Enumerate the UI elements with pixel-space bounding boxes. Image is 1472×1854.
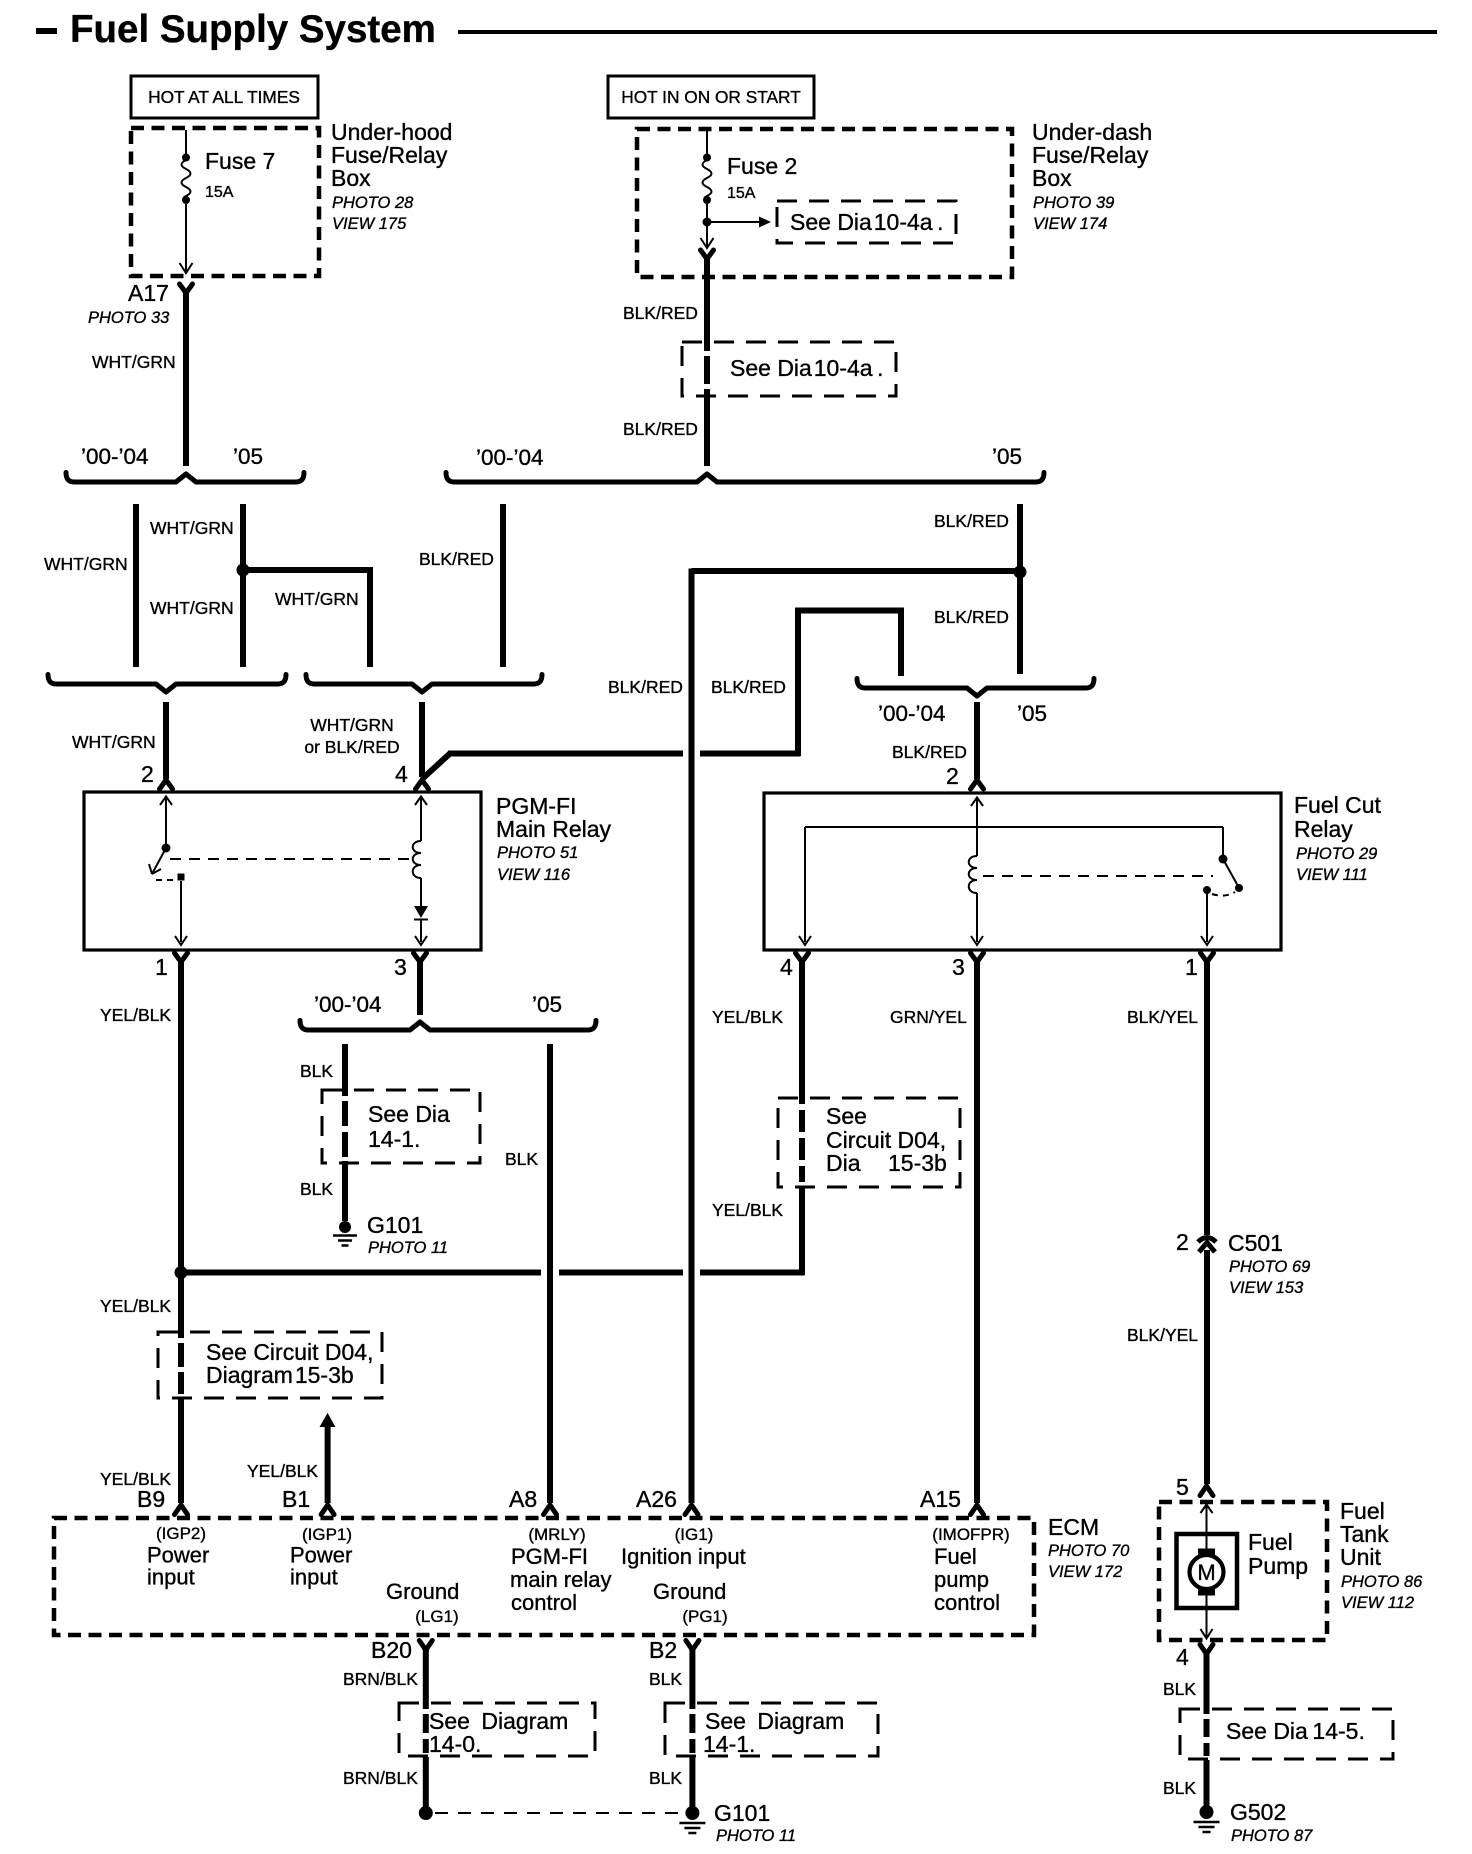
fuel pump label — [1248, 1529, 1308, 1579]
svg-text:BLK: BLK — [505, 1149, 538, 1169]
svg-text:’00-’04: ’00-’04 — [878, 701, 946, 726]
svg-text:(IGP1): (IGP1) — [302, 1525, 352, 1544]
ground G101 label — [714, 1800, 796, 1845]
svg-text:BLK/YEL: BLK/YEL — [1127, 1007, 1198, 1027]
ECM pin name (MRLY) PGM-FI main relay control — [510, 1525, 611, 1615]
wire WHT/GRN '00-'04 branch — [133, 504, 139, 667]
wire BLK/YEL from K2 pin 1 — [1204, 960, 1210, 1235]
svg-text:’00-’04: ’00-’04 — [314, 992, 382, 1017]
svg-text:B20: B20 — [371, 1637, 412, 1663]
pin 2 fork — [160, 780, 173, 789]
svg-text:BLK: BLK — [649, 1669, 682, 1689]
wire BLK '05 to ECM A8 — [547, 1044, 553, 1503]
year split bracket (K1 pin 3) — [300, 1021, 596, 1031]
svg-text:(LG1): (LG1) — [415, 1607, 458, 1626]
pin 4 fork — [416, 780, 429, 789]
K1 pin 4 internal arrow — [415, 797, 427, 806]
svg-text:G101: G101 — [367, 1212, 423, 1238]
K1 pin 1 fork — [175, 953, 188, 962]
wire dashes through reference box — [689, 1714, 695, 1733]
svg-text:VIEW 153: VIEW 153 — [1229, 1279, 1304, 1297]
svg-text:VIEW 111: VIEW 111 — [1296, 866, 1368, 884]
wire elbow up-over-down — [798, 611, 901, 757]
wire YEL/BLK continues below junction to B9 — [178, 1273, 184, 1339]
svg-text:14-1.: 14-1. — [703, 1731, 755, 1757]
svg-text:PHOTO 86: PHOTO 86 — [1341, 1573, 1423, 1591]
dashed tie line B20 to G101 — [435, 1812, 678, 1814]
svg-text:main relay: main relay — [510, 1567, 611, 1592]
K1 pin 3 fork — [414, 953, 427, 962]
svg-text:VIEW 172: VIEW 172 — [1048, 1563, 1122, 1581]
svg-text:Fuel: Fuel — [1248, 1529, 1293, 1555]
svg-text:(IG1): (IG1) — [675, 1525, 714, 1544]
fuse F7 lead bottom with arrow — [185, 204, 187, 272]
svg-text:YEL/BLK: YEL/BLK — [100, 1005, 171, 1025]
fuse F2 element — [703, 160, 712, 200]
K2 coil lead to pin 3 — [976, 893, 978, 942]
wire BLK from tank pin 4 — [1204, 1652, 1210, 1714]
svg-text:Ignition input: Ignition input — [621, 1544, 746, 1569]
svg-text:See Dia 10-4a .: See Dia 10-4a . — [730, 355, 884, 381]
fuel pump box — [1177, 1534, 1238, 1608]
fuse F2 lead bottom with arrow — [706, 225, 708, 246]
svg-text:3: 3 — [952, 954, 965, 980]
K2 pin 2 internal arrow — [971, 798, 983, 807]
svg-text:Fuse 2: Fuse 2 — [727, 153, 797, 179]
connector B1 fork — [321, 1505, 334, 1515]
wire BLK/RED through box (dashed) — [704, 356, 710, 384]
wire dashes through reference box — [423, 1714, 429, 1733]
svg-text:PHOTO 33: PHOTO 33 — [88, 309, 170, 327]
B20 wire end node — [419, 1806, 433, 1820]
K2 pin 1 fork — [1201, 953, 1214, 962]
K1 coil lead — [420, 878, 422, 906]
connector fork below fuse 2 — [701, 250, 714, 259]
wire BLK below box — [1204, 1760, 1210, 1806]
svg-text:(IMOFPR): (IMOFPR) — [932, 1525, 1009, 1544]
wire YEL/BLK from above (B1) — [320, 1413, 336, 1503]
svg-text:ECM: ECM — [1048, 1514, 1099, 1540]
wire GRN/YEL from K2 pin 3 to ECM A15 — [974, 960, 980, 1503]
merge bracket (PGM-FI pin 2) — [48, 675, 286, 693]
K2 coil — [969, 856, 977, 893]
svg-text:C501: C501 — [1228, 1230, 1283, 1256]
svg-text:Ground: Ground — [653, 1579, 726, 1604]
branch arrow to See Dia 10-4a — [711, 221, 760, 223]
fuel tank pin 4 fork — [1200, 1645, 1213, 1655]
See Dia 14-5 reference box — [1180, 1709, 1393, 1759]
svg-text:Pump: Pump — [1248, 1553, 1308, 1579]
svg-text:HOT AT ALL TIMES: HOT AT ALL TIMES — [148, 87, 300, 107]
connector A26 fork — [685, 1505, 698, 1515]
ground G101 (mid) — [333, 1221, 357, 1246]
svg-text:’00-’04: ’00-’04 — [476, 445, 544, 470]
wire YEL/BLK to ECM B9 — [178, 1398, 184, 1503]
svg-text:BRN/BLK: BRN/BLK — [343, 1669, 418, 1689]
svg-text:See: See — [826, 1103, 867, 1129]
svg-text:Fuel: Fuel — [934, 1544, 977, 1569]
svg-text:control: control — [934, 1590, 1000, 1615]
svg-text:4: 4 — [395, 761, 408, 787]
svg-text:PHOTO 51: PHOTO 51 — [497, 844, 578, 862]
svg-text:BLK: BLK — [300, 1061, 333, 1081]
svg-text:WHT/GRN: WHT/GRN — [150, 598, 234, 618]
svg-text:Ground: Ground — [386, 1579, 459, 1604]
fuse F7 lead top — [185, 130, 187, 155]
svg-text:YEL/BLK: YEL/BLK — [712, 1007, 783, 1027]
svg-text:PHOTO 69: PHOTO 69 — [1229, 1258, 1310, 1276]
junction node — [237, 564, 250, 577]
svg-text:PGM-FI: PGM-FI — [511, 1544, 588, 1569]
wire label WHT/GRN or BLK/RED — [304, 715, 399, 757]
svg-text:WHT/GRN: WHT/GRN — [275, 589, 359, 609]
svg-text:BRN/BLK: BRN/BLK — [343, 1768, 418, 1788]
under-hood fuse/relay box (dashed) — [131, 128, 319, 276]
K2 left internal lead to pin 4 — [804, 827, 806, 942]
relay K2 fuel cut relay box — [764, 793, 1281, 950]
svg-text:1: 1 — [155, 954, 168, 980]
connector C501 symbol — [1198, 1238, 1216, 1253]
connector A8 fork — [544, 1505, 557, 1515]
svg-text:G502: G502 — [1230, 1799, 1286, 1825]
wire YEL/BLK riser to K2 pin 4 — [799, 960, 805, 1104]
connector B9 fork — [175, 1505, 188, 1515]
svg-text:PHOTO 11: PHOTO 11 — [368, 1239, 448, 1257]
svg-text:M: M — [1197, 1560, 1215, 1585]
ground G101 label — [367, 1212, 448, 1257]
svg-text:’05: ’05 — [992, 444, 1022, 469]
svg-text:Relay: Relay — [1294, 816, 1353, 842]
fuel tank pin 5 fork — [1200, 1486, 1213, 1496]
svg-text:PHOTO 11: PHOTO 11 — [716, 1827, 796, 1845]
svg-text:2: 2 — [1176, 1229, 1189, 1255]
fuse F7 top dot — [182, 154, 190, 162]
fuse F7 bottom dot — [182, 196, 190, 204]
svg-text:Fuse 7: Fuse 7 — [205, 148, 275, 174]
wire horizontal (pin 4 to elbow) segment 1 — [448, 751, 683, 757]
K2 coil linkage (dashed) — [983, 875, 1213, 877]
svg-text:(IGP2): (IGP2) — [156, 1524, 206, 1543]
See Circuit D04 Diagram 15-3b reference box (left) — [158, 1332, 382, 1398]
svg-text:VIEW 174: VIEW 174 — [1033, 215, 1107, 233]
svg-text:Box: Box — [1032, 165, 1072, 191]
under-dash box label — [1032, 119, 1152, 233]
HOT IN ON OR START box — [608, 76, 814, 118]
svg-text:4: 4 — [1176, 1644, 1189, 1670]
See Diagram 14-0 reference box — [399, 1703, 595, 1756]
svg-text:A26: A26 — [636, 1486, 677, 1512]
svg-text:VIEW 175: VIEW 175 — [332, 215, 407, 233]
branch node dot — [703, 218, 712, 227]
svg-text:B1: B1 — [282, 1486, 310, 1512]
wire diagonal from pin 4 — [422, 754, 450, 780]
fuse F2 bottom dot — [703, 196, 711, 204]
svg-text:or BLK/RED: or BLK/RED — [304, 737, 399, 757]
svg-text:VIEW 116: VIEW 116 — [497, 866, 571, 884]
svg-text:BLK/RED: BLK/RED — [419, 549, 494, 569]
K1 coil linkage (dashed) — [170, 858, 413, 860]
svg-text:14-0.: 14-0. — [429, 1731, 481, 1757]
svg-text:BLK: BLK — [649, 1768, 682, 1788]
svg-text:A15: A15 — [920, 1486, 961, 1512]
svg-text:(MRLY): (MRLY) — [528, 1525, 585, 1544]
junction node — [1014, 566, 1027, 579]
svg-text:HOT IN ON OR START: HOT IN ON OR START — [621, 87, 801, 107]
connector B2 fork — [686, 1641, 699, 1651]
relay K1 label — [496, 793, 612, 884]
wire BLK/RED to fuel cut pin 2 — [974, 702, 980, 779]
connector A17 fork — [180, 284, 193, 293]
wire BLK/RED '00-'04 branch — [500, 504, 506, 667]
svg-text:Dia: Dia — [826, 1150, 861, 1176]
year split bracket (left, under A17) — [66, 473, 304, 483]
wire WHT/GRN from A17 — [183, 291, 189, 466]
ground G502 label — [1230, 1799, 1313, 1845]
svg-text:WHT/GRN: WHT/GRN — [92, 352, 176, 372]
svg-text:15A: 15A — [727, 185, 756, 202]
svg-text:GRN/YEL: GRN/YEL — [890, 1007, 967, 1027]
title dash — [36, 28, 57, 34]
wire dashes through reference box — [1204, 1719, 1210, 1737]
See Dia 10-4a reference box (in under-dash box) — [777, 201, 956, 243]
fuse F2 top dot — [703, 154, 711, 162]
tank internal arrow at pin 5 — [1201, 1505, 1213, 1514]
ECM box (dashed) — [54, 1518, 1034, 1635]
svg-text:’00-’04: ’00-’04 — [81, 444, 149, 469]
motor M symbol — [1190, 1549, 1224, 1596]
svg-text:Diagram 15-3b: Diagram 15-3b — [206, 1362, 354, 1388]
ECM pin name Ground (PG1) — [653, 1579, 728, 1626]
svg-text:2: 2 — [946, 763, 959, 789]
svg-text:B2: B2 — [649, 1637, 677, 1663]
svg-text:PHOTO 28: PHOTO 28 — [332, 194, 414, 212]
fuse F7 element — [182, 160, 191, 200]
ECM label — [1048, 1514, 1130, 1581]
See Dia 10-4a reference box (on wire) — [682, 342, 896, 396]
svg-text:YEL/BLK: YEL/BLK — [247, 1461, 318, 1481]
wire horizontal segment 2 (after crossing) — [700, 751, 801, 757]
tank internal lead to pin 4 with arrow — [1206, 1594, 1208, 1637]
wire dashes through reference box — [342, 1101, 348, 1126]
svg-text:Fuel Cut: Fuel Cut — [1294, 792, 1382, 818]
HOT AT ALL TIMES box — [131, 76, 318, 118]
under-hood box label — [331, 119, 452, 233]
svg-text:pump: pump — [934, 1567, 989, 1592]
under-dash fuse/relay box (dashed) — [637, 129, 1012, 277]
relay K2 label — [1294, 792, 1382, 884]
wire BLK below box — [689, 1757, 695, 1807]
fuse F2 lead top — [706, 131, 708, 155]
wire BLK/RED long drop to A26 — [689, 569, 695, 1504]
svg-text:WHT/GRN: WHT/GRN — [72, 732, 156, 752]
svg-text:BLK: BLK — [300, 1179, 333, 1199]
svg-text:’05: ’05 — [532, 992, 562, 1017]
svg-text:PHOTO 29: PHOTO 29 — [1296, 845, 1377, 863]
svg-text:WHT/GRN: WHT/GRN — [150, 518, 234, 538]
svg-text:PHOTO 39: PHOTO 39 — [1033, 194, 1114, 212]
svg-text:BLK/RED: BLK/RED — [623, 303, 698, 323]
svg-text:BLK/RED: BLK/RED — [623, 419, 698, 439]
fuel tank unit box (dashed) — [1159, 1502, 1327, 1640]
wire dashes through reference box — [178, 1343, 184, 1367]
svg-text:See Dia 10-4a .: See Dia 10-4a . — [790, 209, 944, 235]
svg-text:See Dia: See Dia — [368, 1101, 450, 1127]
svg-text:15A: 15A — [205, 184, 234, 201]
ECM pin name (IG1) Ignition input — [621, 1525, 746, 1569]
svg-text:BLK/YEL: BLK/YEL — [1127, 1325, 1198, 1345]
ECM pin name (IGP2) Power input — [147, 1524, 209, 1590]
ECM pin name (IMOFPR) Fuel pump control — [932, 1525, 1009, 1615]
svg-text:WHT/GRN: WHT/GRN — [44, 554, 128, 574]
svg-text:input: input — [290, 1565, 338, 1590]
wire YEL/BLK horizontal run segment 2 — [559, 1270, 683, 1276]
wire YEL/BLK horizontal run segment 3 (to K2 pin 4 riser) — [700, 1270, 805, 1276]
wire WHT/GRN tap branch — [243, 570, 370, 667]
wire BLK below box — [342, 1161, 348, 1221]
svg-text:14-1.: 14-1. — [368, 1126, 420, 1152]
fuse F2 lead — [706, 204, 708, 219]
svg-text:PHOTO 70: PHOTO 70 — [1048, 1542, 1130, 1560]
See Diagram 14-1 reference box — [665, 1703, 878, 1756]
svg-text:’05: ’05 — [233, 444, 263, 469]
wire from K1 pin 3 to year split — [417, 960, 423, 1015]
svg-text:BLK/RED: BLK/RED — [934, 607, 1009, 627]
wire BRN/BLK below box — [423, 1757, 429, 1807]
K2 pin 3 fork — [971, 953, 984, 962]
wire BLK/YEL below C501 — [1204, 1250, 1210, 1484]
pin 2 fork — [971, 780, 984, 789]
svg-text:See Dia 14-5.: See Dia 14-5. — [1226, 1718, 1365, 1744]
svg-text:’05: ’05 — [1017, 701, 1047, 726]
wire to PGM-FI pin 4 — [419, 702, 425, 777]
svg-text:WHT/GRN: WHT/GRN — [310, 715, 394, 735]
See Dia 14-1 reference box — [322, 1090, 480, 1163]
K2 top internal wire — [805, 826, 1223, 828]
K2 switch throw (dashed) — [1212, 892, 1235, 896]
K1 diode — [414, 906, 428, 918]
K1 diode lead to pin 3 — [420, 920, 422, 942]
wire BLK/RED '05 branch — [1017, 504, 1023, 674]
ground G101 (bottom) — [679, 1806, 705, 1833]
svg-text:G101: G101 — [714, 1800, 770, 1826]
wire BLK/RED from fuse 2 — [704, 257, 710, 351]
K2 pin 4 fork — [796, 953, 809, 962]
ECM pin name Ground (LG1) — [386, 1579, 459, 1626]
fuel tank unit label — [1340, 1498, 1423, 1612]
merge bracket (fuel cut relay pin 2) — [857, 679, 1094, 697]
wire BRN/BLK from B20 — [423, 1648, 429, 1709]
svg-text:BLK/RED: BLK/RED — [608, 677, 683, 697]
wire BLK/RED horizontal tap — [692, 568, 1021, 574]
ground G502 — [1194, 1805, 1220, 1832]
wire BLK/RED below box — [704, 389, 710, 466]
year split bracket (under fuse 2) — [446, 473, 1044, 483]
svg-text:control: control — [511, 1590, 577, 1615]
svg-text:BLK/RED: BLK/RED — [892, 742, 967, 762]
junction node — [175, 1266, 188, 1279]
svg-text:Main Relay: Main Relay — [496, 816, 612, 842]
svg-text:Box: Box — [331, 165, 371, 191]
svg-text:Unit: Unit — [1340, 1544, 1382, 1570]
svg-text:BLK: BLK — [1163, 1679, 1196, 1699]
K1 switch linkage (dashed) — [156, 879, 173, 881]
svg-text:A8: A8 — [509, 1486, 537, 1512]
wire WHT/GRN '05 branch — [240, 504, 246, 667]
svg-text:Fuel Supply System: Fuel Supply System — [70, 8, 436, 51]
svg-text:A17: A17 — [128, 280, 169, 306]
K1 contact lead down to pin 1 — [180, 881, 182, 942]
svg-text:BLK/RED: BLK/RED — [934, 511, 1009, 531]
connector B20 fork — [419, 1641, 432, 1651]
svg-text:(PG1): (PG1) — [682, 1607, 727, 1626]
K1 coil — [413, 841, 421, 878]
K1 stationary contact (square) — [178, 874, 185, 881]
merge bracket (PGM-FI pin 4) — [306, 675, 542, 693]
relay K1 PGM-FI main relay box — [84, 792, 481, 950]
svg-text:4: 4 — [780, 954, 793, 980]
svg-text:3: 3 — [394, 954, 407, 980]
svg-text:B9: B9 — [137, 1486, 165, 1512]
svg-text:BLK/RED: BLK/RED — [711, 677, 786, 697]
K1 pin 2 internal arrow — [160, 797, 172, 806]
connector A15 fork — [971, 1505, 984, 1515]
wire WHT/GRN to PGM-FI pin 2 — [163, 702, 169, 779]
connector C501 label — [1228, 1230, 1310, 1297]
ECM pin name (IGP1) Power input — [290, 1525, 352, 1590]
svg-text:YEL/BLK: YEL/BLK — [100, 1296, 171, 1316]
wire YEL/BLK horizontal run segment 1 — [181, 1270, 541, 1276]
svg-text:VIEW 112: VIEW 112 — [1341, 1594, 1414, 1612]
svg-text:5: 5 — [1176, 1474, 1189, 1500]
wire BLK from B2 — [689, 1648, 695, 1709]
title rule — [458, 30, 1437, 34]
See Circuit D04 Dia 15-3b reference box (right) — [778, 1098, 960, 1187]
svg-text:15-3b: 15-3b — [888, 1150, 947, 1176]
K2 switch pivot dot — [1219, 855, 1228, 864]
svg-text:1: 1 — [1185, 954, 1198, 980]
svg-text:2: 2 — [141, 761, 154, 787]
svg-text:YEL/BLK: YEL/BLK — [712, 1200, 783, 1220]
K2 stationary contact dot — [1203, 886, 1211, 894]
K1 switch pivot dot — [162, 844, 171, 853]
wire YEL/BLK from K1 pin 1 — [178, 960, 184, 1273]
svg-text:PHOTO 87: PHOTO 87 — [1231, 1827, 1313, 1845]
svg-text:BLK: BLK — [1163, 1778, 1196, 1798]
K2 contact lead to pin 1 — [1206, 893, 1208, 942]
svg-text:input: input — [147, 1565, 195, 1590]
wire BLK '00-'04 to G101 — [342, 1044, 348, 1096]
K1 switch arm — [152, 848, 166, 874]
K2 switch feed — [1222, 827, 1224, 855]
K2 switch arm — [1223, 859, 1238, 886]
